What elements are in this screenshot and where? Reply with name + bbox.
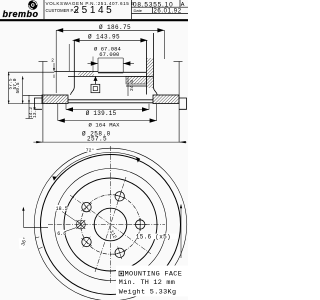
svg-text:Ø 164 MAX: Ø 164 MAX	[89, 121, 121, 128]
svg-text:brembo: brembo	[3, 9, 39, 19]
svg-text:Date: Date	[134, 8, 143, 13]
svg-text:26.01.92: 26.01.92	[154, 8, 182, 14]
svg-text:Weight 5.33Kg: Weight 5.33Kg	[119, 288, 177, 296]
svg-text:15.6 (x5): 15.6 (x5)	[136, 233, 171, 240]
svg-text:18.5: 18.5	[56, 206, 68, 212]
svg-text:25145: 25145	[74, 5, 115, 16]
svg-text:24.5: 24.5	[129, 80, 135, 91]
svg-text:A: A	[181, 2, 185, 8]
svg-text:72°: 72°	[86, 147, 95, 153]
svg-text:257.5: 257.5	[87, 136, 107, 143]
svg-text:2: 2	[51, 58, 54, 64]
svg-text:Ø 186.75: Ø 186.75	[99, 24, 131, 31]
svg-text:Ø 139.15: Ø 139.15	[86, 110, 117, 117]
svg-text:MOUNTING FACE: MOUNTING FACE	[125, 271, 183, 279]
svg-text:50.5: 50.5	[15, 82, 21, 93]
svg-text:Ø 143.95: Ø 143.95	[88, 34, 120, 41]
svg-text:Min. TH 12 mm: Min. TH 12 mm	[119, 279, 175, 287]
svg-text:13.8: 13.8	[32, 107, 38, 118]
svg-text:67.000: 67.000	[99, 51, 119, 58]
svg-text:6.6: 6.6	[57, 231, 66, 237]
